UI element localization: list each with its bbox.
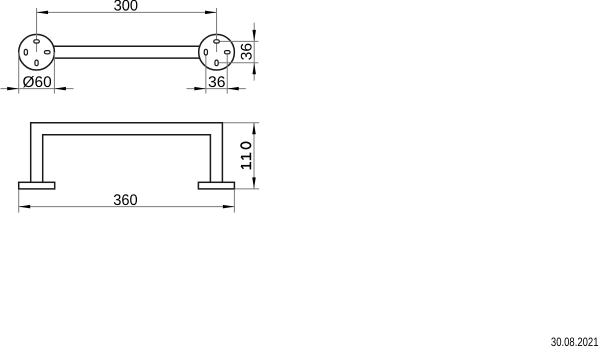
bar top view: lower line [53,57,201,59]
dimension 36 vertical: dimension line [253,23,255,81]
dimension 36 horizontal: dimension line [187,88,246,90]
dimension 36 vertical: arrow bottom [252,63,256,75]
dimension 360: extension line right [233,189,235,212]
right flange circle [199,34,235,70]
dimension D60: arrow right [54,87,66,91]
svg-text:Ø60: Ø60 [23,74,52,91]
bar top view: upper line [53,45,201,47]
dimension 36 horizontal: arrow right [227,87,239,91]
dimension 300: arrow right [205,11,217,15]
dimension 360: extension line left [18,189,20,212]
front view left base plate [19,182,55,189]
dimension 300: extension line left [36,8,38,52]
dimension 36 horizontal: arrow left [194,87,206,91]
dimension 36 vertical: extension line bottom from hole S [217,62,259,64]
svg-text:36: 36 [238,43,255,60]
dimension 360: dimension line [19,206,235,208]
dimension D60: arrow left [7,87,19,91]
right flange hole N [214,40,220,43]
right flange hole S [215,60,218,66]
svg-text:30.08.2021: 30.08.2021 [551,335,599,347]
dimension 110: arrow top [252,123,256,135]
right flange hole W [204,49,207,55]
dimension 36 vertical: extension line top from hole N [217,40,259,42]
dimension D60: extension line right [53,52,55,93]
svg-text:300: 300 [114,0,138,15]
left flange hole E [44,51,50,54]
dimension 110: value label [241,142,251,169]
dimension 300: dimension line [37,11,217,13]
front view right base plate [198,182,234,189]
dimension 110: extension line top [223,122,259,124]
dimension 300: extension line right [216,8,218,52]
front view inner outline [43,135,211,183]
front view outer outline [31,123,223,183]
dimension 110: dimension line [253,123,255,189]
dimension 36 horizontal: extension line right from hole E [226,52,228,93]
dimension 36 vertical: arrow top [252,30,256,42]
dimension 360: arrow right [223,205,235,209]
left flange hole N [34,40,40,43]
right flange hole E [224,51,230,54]
dimension 36 horizontal: extension line left from hole W [205,52,207,93]
dimension D60: extension line left [18,52,20,93]
left flange hole S [35,60,38,66]
dimension D60: dimension line [1,88,74,90]
svg-text:36: 36 [208,74,225,91]
dimension 360: arrow left [19,205,31,209]
left flange hole W [24,49,27,55]
svg-text:360: 360 [113,192,137,209]
dimension 300: arrow left [37,11,49,15]
left flange circle [19,34,55,70]
dimension 110: extension line bottom [235,188,259,190]
dimension 110: arrow bottom [252,177,256,189]
